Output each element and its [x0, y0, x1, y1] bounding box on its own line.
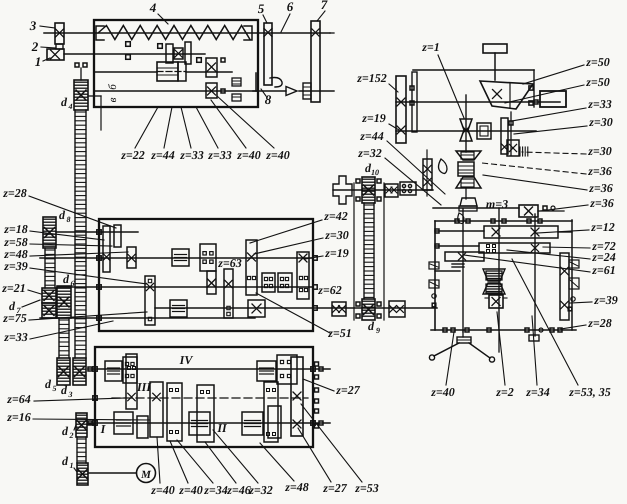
chain d8-d7 — [44, 248, 46, 288]
svg-text:z=12: z=12 — [590, 220, 615, 234]
table rect — [483, 44, 507, 53]
svg-text:z=53: z=53 — [354, 481, 379, 495]
shaft y=102 — [396, 101, 560, 103]
svg-text:5: 5 — [53, 384, 57, 393]
worm z=1 hourglass — [460, 119, 472, 130]
sprocket d1 — [77, 463, 88, 485]
gear box A2 — [123, 357, 137, 383]
svg-text:8: 8 — [265, 92, 272, 107]
frame outline verticals — [434, 221, 436, 330]
frame bar right of z152 — [412, 72, 417, 132]
svg-text:z=50: z=50 — [585, 55, 610, 69]
sliding block gear D (dashed centerline shaft c) — [94, 71, 157, 73]
gear N tall — [297, 252, 309, 299]
gear lower tall z=39 — [145, 276, 155, 325]
small rect below x=535 — [529, 335, 539, 341]
gear z=36 top — [519, 205, 538, 217]
svg-text:z=34: z=34 — [525, 385, 550, 399]
svg-text:z=152: z=152 — [356, 71, 387, 85]
svg-text:z=2: z=2 — [495, 385, 514, 399]
svg-text:z=16: z=16 — [6, 410, 31, 424]
leadscrew left nut bracket — [96, 26, 104, 40]
small gear pair 2 — [278, 273, 292, 292]
hatched rect at bottom of item7 — [303, 83, 311, 99]
sprocket d5 — [57, 358, 70, 385]
svg-text:9: 9 — [376, 326, 380, 335]
frame horizontals — [435, 220, 572, 222]
svg-text:z=28: z=28 — [2, 186, 27, 200]
svg-text:10: 10 — [371, 168, 379, 177]
worm wheel gear — [477, 123, 491, 139]
bevel cone cluster center — [456, 151, 481, 160]
svg-text:z=39: z=39 — [593, 293, 618, 307]
svg-text:7: 7 — [321, 0, 328, 12]
right tall gear rect — [560, 253, 569, 320]
svg-text:d: d — [61, 95, 68, 109]
stem below bevel — [465, 188, 467, 199]
top rail y=208 — [433, 207, 519, 209]
gear z=58 small — [127, 247, 136, 268]
shaft stub y=91 right of item 7 — [299, 90, 334, 92]
bearing squares on box right edge — [313, 256, 317, 260]
motor M — [137, 464, 156, 483]
hatched rect pair right inside box — [232, 78, 241, 86]
bearing squares near d10 — [356, 179, 360, 183]
gear E — [167, 383, 182, 441]
shaft stub y=232 right — [558, 231, 572, 233]
svg-text:z=32: z=32 — [357, 146, 382, 160]
svg-text:5: 5 — [258, 1, 265, 16]
svg-text:z=40: z=40 — [430, 385, 455, 399]
svg-text:II: II — [216, 421, 228, 435]
svg-text:z=33: z=33 — [587, 97, 612, 111]
motor block rect — [540, 91, 566, 107]
gear cluster top-left rect2 — [114, 225, 121, 247]
svg-text:z=21: z=21 — [1, 281, 26, 295]
svg-text:z=40: z=40 — [265, 148, 290, 162]
svg-text:d: d — [62, 454, 69, 468]
sprocket d4 — [74, 80, 88, 110]
ratchet hatches right — [569, 260, 579, 268]
svg-text:z=63: z=63 — [217, 256, 242, 270]
long gear bar3 — [445, 252, 484, 261]
sprocket d10 — [362, 177, 375, 203]
sprocket d9 — [362, 299, 375, 320]
bearing square shaft 102 — [534, 100, 538, 104]
svg-text:2: 2 — [69, 431, 74, 440]
gear C tall — [185, 42, 191, 64]
svg-text:z=30: z=30 — [324, 228, 349, 242]
shaft stub y=271 — [435, 270, 460, 272]
bearing square pairs on frame top edge — [455, 219, 459, 223]
svg-text:1: 1 — [70, 461, 74, 470]
shaft stub from d4 — [88, 95, 101, 97]
leadscrew right nut bracket — [244, 26, 252, 40]
gear B with x — [174, 48, 183, 59]
svg-text:z=46: z=46 — [226, 483, 251, 497]
vertical x=511 — [510, 112, 512, 155]
bevel boxes z=62 right — [389, 301, 405, 317]
svg-text:z=64: z=64 — [6, 392, 31, 406]
svg-text:3: 3 — [68, 390, 73, 399]
svg-text:z=28: z=28 — [587, 316, 612, 330]
sprocket d3 — [73, 358, 86, 385]
gear pair left x=427 — [423, 159, 432, 190]
shaft a horizontal y=33 — [44, 32, 330, 34]
shaft d y=91 with arrow — [94, 90, 258, 92]
svg-text:z=36: z=36 — [589, 196, 614, 210]
clutch J — [189, 412, 210, 435]
rack arrow item 8 — [255, 73, 257, 91]
svg-text:z=22: z=22 — [120, 148, 145, 162]
shaft III dashed — [112, 397, 308, 399]
gear E — [178, 62, 186, 81]
small gear pair 1 — [262, 273, 275, 292]
shaft stub y=248 — [435, 245, 479, 247]
svg-text:z=19: z=19 — [361, 111, 386, 125]
bearing squares feed box — [93, 367, 97, 371]
svg-text:z=27: z=27 — [335, 383, 361, 397]
bevel funnel on vertical shaft — [480, 81, 533, 109]
clutch x-box on shaft 308 — [248, 300, 265, 317]
gear cluster top-left rect1 — [103, 226, 110, 272]
long gear bar2 — [479, 243, 550, 253]
top rail y=70 — [413, 69, 534, 71]
svg-text:z=61: z=61 — [591, 263, 616, 277]
svg-text:z=33: z=33 — [3, 330, 28, 344]
svg-text:1: 1 — [35, 54, 42, 69]
svg-text:2: 2 — [31, 39, 39, 54]
gear z=152 tall rect — [396, 76, 406, 143]
chain d10-d9 — [363, 203, 365, 299]
svg-text:4: 4 — [149, 0, 157, 15]
feed gearbox outline — [95, 347, 313, 447]
table stem — [494, 53, 496, 80]
svg-text:d: d — [368, 319, 375, 333]
gear 3 (vertical cluster) — [55, 23, 64, 44]
chain case verticals — [353, 183, 355, 320]
svg-text:IV: IV — [179, 353, 194, 367]
gear L — [268, 406, 281, 438]
svg-text:z=34: z=34 — [203, 483, 228, 497]
speed gearbox outline — [99, 219, 313, 331]
motor line — [88, 472, 136, 474]
svg-text:z=75: z=75 — [2, 311, 27, 325]
shaft II — [88, 422, 330, 424]
svg-text:в: в — [107, 97, 119, 102]
ratchet hatches left — [429, 262, 439, 269]
bevel pair in frame — [483, 269, 505, 281]
sprocket d8 — [43, 217, 56, 248]
clutch A on IV — [105, 361, 122, 381]
gear cluster z33 tall — [501, 118, 508, 154]
gear block with squares — [200, 244, 216, 271]
clutch H on I — [114, 412, 133, 434]
shaft y=189 — [333, 189, 433, 191]
svg-text:6: 6 — [287, 0, 294, 14]
chain d2-d1 — [76, 437, 78, 463]
svg-text:z=36: z=36 — [588, 181, 613, 195]
oo box on shaft 189 — [400, 182, 416, 195]
tall gear x=224 — [224, 269, 233, 318]
svg-text:б: б — [107, 84, 119, 90]
svg-text:z=30: z=30 — [588, 115, 613, 129]
svg-text:z=48: z=48 — [284, 480, 309, 494]
svg-text:z=24: z=24 — [591, 250, 616, 264]
shaft I stub to d2 — [87, 423, 95, 425]
bearing squares on box left edge — [97, 230, 101, 234]
svg-text:z=39: z=39 — [3, 259, 28, 273]
item 5 shifter bar — [264, 23, 272, 85]
shaft IV — [88, 368, 330, 370]
svg-text:z=42: z=42 — [323, 209, 348, 223]
shaft b y=54 from gear1 into box — [64, 53, 205, 55]
gear F lower with x — [206, 83, 217, 98]
gear F upper with x — [206, 58, 217, 77]
gear M1 tall — [246, 240, 257, 295]
gear I2 — [137, 416, 148, 438]
svg-text:z=62: z=62 — [317, 283, 342, 297]
svg-text:d: d — [45, 377, 52, 391]
shaft stub y=232 left — [435, 230, 484, 232]
shaft y=318 — [40, 317, 255, 319]
sprocket d7 double — [42, 288, 56, 303]
svg-text:3: 3 — [29, 18, 37, 33]
svg-text:d: d — [59, 208, 66, 222]
svg-text:z=33: z=33 — [179, 148, 204, 162]
gear box B2 — [277, 355, 297, 384]
gear A on shaft b — [166, 44, 173, 63]
shaft y=308 to right — [155, 307, 437, 309]
svg-text:z=1: z=1 — [421, 40, 440, 54]
bearing squares near d9 — [356, 302, 360, 306]
cross flange — [333, 176, 352, 204]
shaft y=131 — [396, 130, 536, 132]
sprocket d6 — [57, 286, 71, 318]
bottom rail squares — [443, 328, 447, 332]
svg-text:z=27: z=27 — [322, 481, 348, 495]
shaft y=287 main — [57, 286, 313, 288]
svg-text:z=40: z=40 — [236, 148, 261, 162]
tall gear C right end — [291, 357, 303, 436]
vertical shaft to worm — [465, 95, 467, 152]
svg-text:z=33: z=33 — [207, 148, 232, 162]
long gear bar1 — [484, 226, 558, 238]
shaft y=258 main — [40, 257, 313, 259]
double x gear right of d10 — [385, 184, 398, 197]
svg-text:M: M — [140, 469, 152, 481]
drop hook left of bevel — [439, 159, 448, 173]
bearing squares frame left edge — [435, 229, 439, 233]
clutch dogs small squares — [126, 42, 131, 47]
gear D — [150, 382, 163, 437]
svg-text:z=40: z=40 — [150, 483, 175, 497]
sprocket d2 — [76, 413, 87, 437]
gear cluster z30 — [507, 140, 519, 156]
clutch K — [242, 412, 263, 435]
stub right of z36 gear — [538, 210, 564, 212]
svg-text:d: d — [62, 424, 69, 438]
gear 1 box — [47, 49, 64, 60]
comb rack — [519, 147, 521, 156]
chain d4-d3 — [74, 110, 76, 358]
svg-text:z=36: z=36 — [587, 164, 612, 178]
gear III cluster tall — [126, 354, 137, 409]
table support rect — [457, 337, 471, 343]
clutch on shaft y=258 — [172, 249, 189, 266]
vertical x=534 and motor block — [533, 70, 535, 107]
svg-text:z=53, 35: z=53, 35 — [568, 385, 611, 399]
svg-text:z=32: z=32 — [248, 483, 273, 497]
hook of item 8 — [270, 78, 282, 88]
gear G — [264, 382, 278, 442]
headstock box outline — [94, 20, 258, 107]
svg-text:z=30: z=30 — [587, 144, 612, 158]
svg-text:z=40: z=40 — [178, 483, 203, 497]
svg-text:m=3: m=3 — [486, 197, 508, 211]
gear F — [197, 385, 214, 442]
shaft y=232 stub — [56, 231, 138, 233]
drop below foot — [458, 213, 464, 224]
clutch on shaft y=308 — [170, 300, 187, 317]
svg-text:8: 8 — [67, 215, 71, 224]
chain d6-d5 — [58, 318, 60, 358]
svg-text:z=50: z=50 — [585, 75, 610, 89]
svg-text:z=44: z=44 — [359, 129, 384, 143]
svg-text:d: d — [63, 272, 70, 286]
svg-text:z=19: z=19 — [324, 246, 349, 260]
svg-text:z=44: z=44 — [150, 148, 175, 162]
clutch B on IV right — [257, 361, 276, 381]
table legs v-shape — [434, 343, 459, 356]
clutch lines — [452, 263, 464, 265]
svg-text:z=18: z=18 — [3, 222, 28, 236]
worm box z=2 — [489, 295, 503, 308]
svg-text:z=51: z=51 — [327, 326, 352, 340]
bearing squares right edge column — [315, 362, 319, 366]
verticals below frame — [462, 330, 464, 337]
item 7 shifter bar — [311, 21, 320, 102]
leadscrew zigzag 4 — [98, 26, 250, 40]
bevel boxes z=62 left — [332, 302, 346, 316]
svg-text:I: I — [100, 422, 107, 436]
svg-text:4: 4 — [68, 102, 73, 111]
